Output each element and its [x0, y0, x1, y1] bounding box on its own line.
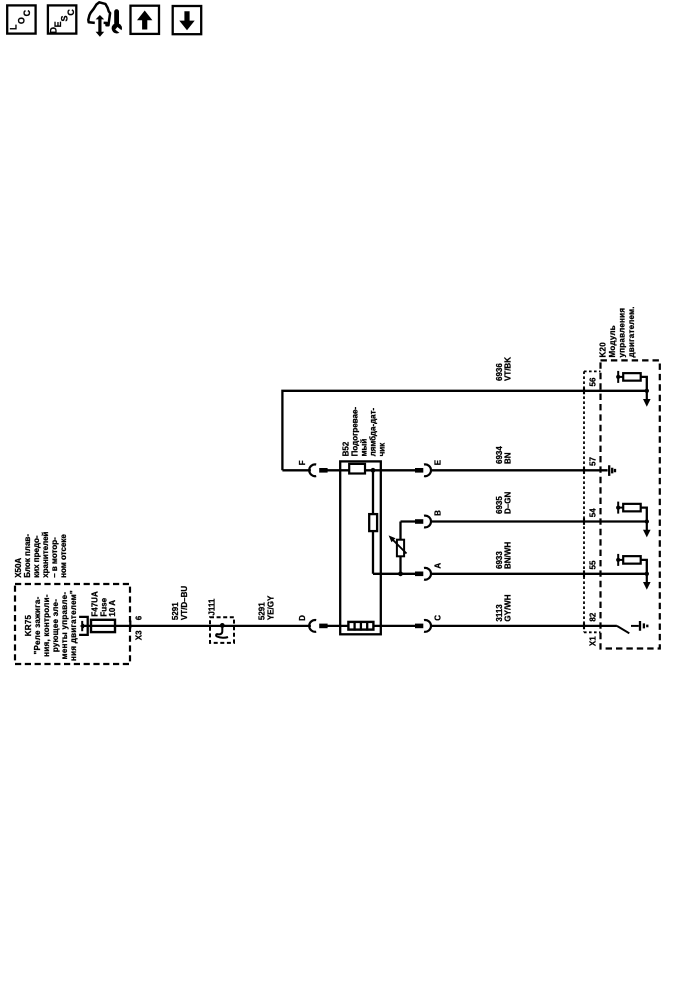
svg-text:10 A: 10 A: [108, 600, 117, 617]
connector X1 strip dashed: [584, 371, 601, 632]
sensor element resistor: [369, 514, 377, 531]
connector A male pin: [415, 571, 423, 576]
label relay KR75: [24, 590, 78, 661]
junction node on A line: [398, 571, 403, 576]
label wire 6936 VT/BK: [495, 357, 513, 381]
label wire 6935 D-GN: [495, 492, 513, 514]
fuse F47UA body: [91, 620, 115, 632]
svg-text:ния двигателем": ния двигателем": [69, 590, 78, 661]
switch to ground pin 82: [617, 621, 647, 633]
wire 6934 BN E to K20 pin 57 ground: [430, 469, 607, 471]
fuse block X50A dashed box: [15, 584, 130, 664]
svg-text:X3: X3: [135, 630, 144, 640]
svg-text:6933: 6933: [495, 551, 504, 569]
ECM K20 dashed box: [601, 360, 660, 648]
wire 6936 VT/BK F loop to K20 pin 56: [282, 391, 646, 471]
wire F-E heater feed: [282, 469, 415, 471]
label module K20: [598, 306, 636, 357]
junction node on F-E line: [371, 468, 376, 473]
label wire 3113 GY/WH: [495, 594, 513, 621]
variable resistance sensing element: [389, 535, 407, 556]
label wire 5291 YE/GY: [258, 595, 276, 620]
wire 6933 BN/WH A to K20 pin 55: [430, 573, 646, 575]
svg-text:Модуль: Модуль: [608, 325, 617, 357]
driver circuit pin 56: [616, 371, 650, 407]
svg-text:VT/D–BU: VT/D–BU: [180, 586, 189, 620]
connector X1 pin ticks: [583, 387, 585, 629]
oxygen sensor B52 box: [340, 461, 381, 634]
svg-text:F47UA: F47UA: [91, 591, 100, 617]
svg-text:B: B: [434, 510, 443, 516]
connector E female arc: [424, 464, 431, 476]
splice J111 junction dot: [220, 623, 225, 628]
svg-text:54: 54: [588, 508, 597, 517]
splice J111 pigtail: [216, 627, 228, 638]
connector B female arc: [424, 516, 431, 528]
connector A female arc: [424, 568, 431, 580]
svg-text:BN: BN: [504, 452, 513, 464]
svg-text:5291: 5291: [171, 602, 180, 620]
svg-text:K20: K20: [598, 342, 607, 358]
svg-text:YE/GY: YE/GY: [266, 595, 275, 620]
label sensor B52: [342, 407, 387, 457]
icon vehicle with arrows and wrench: [88, 2, 123, 36]
connector C male pin: [415, 624, 423, 629]
svg-text:C: C: [434, 615, 443, 621]
connector F female arc: [309, 464, 316, 476]
label X50A fuse block: [14, 531, 68, 577]
svg-text:F: F: [298, 460, 307, 465]
svg-text:82: 82: [588, 612, 597, 621]
svg-text:"Реле зажига-: "Реле зажига-: [33, 596, 42, 654]
connector F male pin: [319, 468, 327, 473]
svg-text:A: A: [434, 563, 443, 569]
svg-text:KR75: KR75: [24, 614, 33, 636]
wire 3113 GY/WH C to K20 pin 82: [430, 625, 617, 627]
wire hot feed from relay through fuse to D: [82, 625, 311, 627]
svg-text:Подогревае-: Подогревае-: [351, 407, 360, 457]
icon button LOC: [7, 5, 35, 33]
label wire 6934 BN: [495, 446, 513, 464]
svg-text:6: 6: [135, 615, 144, 620]
svg-text:ния, контроли-: ния, контроли-: [42, 594, 51, 657]
connector X3 pin tick: [129, 621, 131, 629]
svg-text:двигателем.: двигателем.: [627, 306, 636, 357]
label wire 6933 BN/WH: [495, 542, 513, 569]
svg-text:хранителей: хранителей: [41, 531, 50, 577]
svg-text:C: C: [66, 9, 76, 16]
svg-text:6936: 6936: [495, 363, 504, 381]
icon button up arrow: [131, 6, 160, 34]
svg-text:ном отсеке: ном отсеке: [59, 534, 68, 578]
splice J111 dashed box: [210, 617, 234, 643]
svg-text:рующее эле-: рующее эле-: [51, 599, 60, 652]
connector D male pin: [319, 624, 327, 629]
wire 5291 YE/GY segment D bar to B52: [327, 625, 415, 627]
svg-text:57: 57: [588, 457, 597, 466]
svg-text:X1: X1: [589, 636, 598, 646]
driver circuit pin 55: [616, 554, 650, 590]
svg-text:чик: чик: [378, 442, 387, 457]
svg-text:B52: B52: [342, 441, 351, 456]
relay KR75 contact: [79, 617, 88, 635]
connector D female arc: [309, 620, 316, 632]
svg-text:VT/BK: VT/BK: [504, 357, 513, 381]
svg-text:лямбда-дат-: лямбда-дат-: [369, 407, 378, 456]
heater grid element on D-C line: [348, 621, 373, 631]
svg-text:56: 56: [588, 377, 597, 386]
svg-text:мый: мый: [360, 439, 369, 457]
svg-text:J111: J111: [208, 598, 217, 615]
ground symbol pin 57: [609, 465, 615, 476]
svg-text:D: D: [298, 615, 307, 621]
svg-text:3113: 3113: [495, 604, 504, 622]
icon button down arrow: [173, 6, 202, 34]
heater element resistor on F-E line: [349, 464, 365, 474]
connector E male pin: [415, 468, 423, 473]
svg-text:55: 55: [588, 560, 597, 569]
wire sensor branch inside B52: [373, 470, 415, 574]
wire 6935 D-GN B to K20 pin 54: [401, 520, 647, 522]
svg-text:Блок плав-: Блок плав-: [23, 534, 32, 578]
label fuse F47UA: [91, 591, 118, 617]
svg-text:BN/WH: BN/WH: [504, 542, 513, 569]
svg-text:менты управле-: менты управле-: [60, 592, 69, 660]
svg-text:X50A: X50A: [14, 558, 23, 578]
connector B male pin: [415, 519, 423, 524]
svg-text:Fuse: Fuse: [99, 597, 108, 616]
svg-text:6934: 6934: [495, 446, 504, 464]
icon button DESC: [48, 5, 76, 33]
svg-text:D–GN: D–GN: [504, 492, 513, 514]
svg-text:O: O: [17, 17, 27, 24]
connector C female arc: [424, 620, 431, 632]
svg-text:– в мотор-: – в мотор-: [50, 537, 59, 578]
svg-text:C: C: [22, 9, 32, 16]
svg-text:GY/WH: GY/WH: [504, 594, 513, 621]
svg-text:6935: 6935: [495, 496, 504, 514]
svg-text:ких предо-: ких предо-: [32, 535, 41, 578]
svg-text:E: E: [434, 459, 443, 465]
label wire 5291 VT/D-BU: [171, 586, 189, 620]
svg-text:управления: управления: [617, 308, 626, 358]
driver circuit pin 54: [616, 502, 650, 538]
